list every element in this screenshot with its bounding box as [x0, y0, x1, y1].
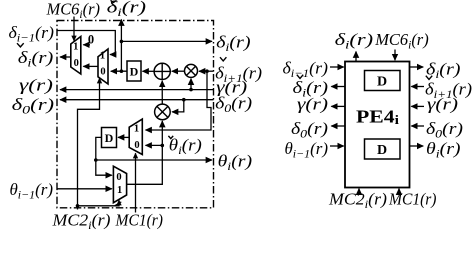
svg-text:1: 1 — [73, 42, 78, 53]
wire delta_i-1 input to mux M2 pin 1 — [57, 31, 115, 55]
wire D2 output to theta_i row — [96, 137, 102, 160]
svg-text:PE4i: PE4i — [356, 107, 399, 128]
flip-flop D (bottom) — [365, 139, 401, 159]
wire adder A1 output to D1 — [143, 70, 155, 72]
svg-text:δ0(r): δ0(r) — [426, 119, 463, 141]
wire gamma up into X1 — [190, 79, 192, 90]
wire constant 0 into M1 pin 1 — [83, 44, 90, 46]
node delta-check_i+1 tap — [205, 69, 209, 73]
wire right row2 input arrow — [411, 86, 424, 88]
mux M1 — [71, 37, 81, 75]
dash-dot PE boundary box — [57, 21, 214, 208]
svg-text:0: 0 — [100, 67, 105, 78]
wire row1 input arrow — [330, 66, 344, 68]
svg-text:θi(r): θi(r) — [426, 139, 461, 161]
wire MC2 select net (mux M2 select to mux M4 select) — [78, 78, 100, 206]
svg-text:γ(r): γ(r) — [297, 95, 328, 114]
svg-text:0: 0 — [74, 58, 79, 69]
multiplier X1 — [185, 64, 198, 77]
svg-text:δ0(r): δ0(r) — [291, 119, 328, 141]
label caron remnant above top delta — [111, 0, 117, 2]
wire right row3 input arrow — [411, 105, 424, 107]
wire row2 output arrow — [331, 86, 345, 88]
node delta_i branch — [120, 40, 124, 44]
wire branch down to mux M4 pin 0 — [96, 160, 112, 175]
svg-text:θi(r): θi(r) — [218, 152, 253, 174]
wire right row1 output arrow — [410, 66, 424, 68]
svg-text:0: 0 — [116, 172, 121, 183]
mux M4 select hatch — [115, 202, 122, 206]
wire MC2 bottom input arrow — [358, 189, 360, 193]
node MC2 junction — [76, 204, 80, 208]
svg-text:δi(r): δi(r) — [107, 0, 147, 19]
svg-text:MC1(r): MC1(r) — [388, 190, 437, 209]
wire row3 output arrow — [331, 105, 345, 107]
wire delta_i(r) output to right edge — [121, 40, 212, 42]
wire row4 output arrow — [331, 125, 345, 127]
node D1 output tap — [120, 69, 124, 73]
svg-text:δi(r): δi(r) — [426, 60, 461, 82]
svg-text:D: D — [105, 131, 114, 145]
wire mux M3 output to D2 — [118, 136, 129, 138]
svg-text:MC1(r): MC1(r) — [115, 210, 164, 229]
svg-text:0: 0 — [134, 140, 139, 151]
wire delta_0(r) bus across — [60, 99, 214, 101]
wire delta-check_i+1 down to mux M3 pin 1 — [146, 71, 212, 130]
svg-text:1: 1 — [117, 185, 122, 196]
mux M2 — [98, 49, 108, 84]
wire MC1 bottom input arrow — [398, 189, 400, 193]
wire theta_i-1 input to mux M4 pin 1 — [57, 188, 112, 190]
mux M3 — [129, 119, 142, 154]
svg-text:D: D — [377, 75, 387, 90]
wire theta-check to mux M3 pin 0 — [146, 144, 163, 146]
wire MC1 select into mux M3 — [135, 153, 137, 212]
mux M4 (mirrored, inputs on left) — [113, 166, 126, 203]
svg-text:D: D — [377, 143, 387, 158]
svg-text:MC6i(r): MC6i(r) — [46, 0, 101, 21]
wire mux M1 output delta-check_i to left edge — [60, 56, 71, 58]
node gamma tap — [189, 88, 193, 92]
PE4i block box — [345, 62, 410, 188]
label caron of left row2 — [297, 75, 303, 79]
wire multiplier X1 output to adder A1 — [172, 70, 185, 72]
label caron of right row2 — [426, 76, 432, 80]
wire MC2 to mux M4 select — [78, 200, 120, 206]
svg-text:MC2i(r): MC2i(r) — [51, 210, 110, 232]
wire right row5 output arrow — [410, 145, 424, 147]
wire MC6 select into mux M1 — [73, 17, 75, 41]
node theta_i junction — [94, 158, 98, 162]
svg-text:MC6i(r): MC6i(r) — [374, 30, 429, 52]
flip-flop D (top) — [365, 71, 401, 91]
svg-text:δ0(r): δ0(r) — [12, 95, 55, 117]
svg-text:θi(r): θi(r) — [169, 136, 202, 158]
wire delta_0 into multiplier X2 — [172, 100, 184, 112]
wire theta-check vertical (mux M4 output up to X2) — [127, 121, 163, 184]
node delta_0 tap — [182, 98, 186, 102]
label caron of theta-check_i(r) — [168, 136, 173, 139]
svg-text:δi(r): δi(r) — [335, 30, 374, 52]
wire theta_i(r) output to right edge — [96, 159, 212, 161]
svg-text:1: 1 — [100, 51, 105, 62]
svg-text:δi(r): δi(r) — [18, 48, 54, 70]
wire right row4 input arrow — [411, 125, 424, 127]
svg-text:MC2i(r): MC2i(r) — [328, 190, 387, 212]
wire X2 output up to adder A1 — [161, 81, 163, 104]
wire delta-check_i+1 input from right edge to X1 — [199, 70, 214, 72]
wire delta_i top output arrow — [355, 52, 357, 62]
wire gamma(r) bus across — [60, 89, 214, 91]
multiplier X2 — [155, 104, 171, 120]
svg-text:δi(r): δi(r) — [216, 33, 251, 55]
label caron of delta-check_i+1(r) — [220, 57, 226, 61]
svg-text:γ(r): γ(r) — [19, 76, 53, 95]
adder A1 — [154, 63, 170, 79]
svg-text:1: 1 — [134, 124, 139, 135]
wire mux M2 output to mux M1 pin 0 — [83, 65, 98, 67]
svg-text:δ0(r): δ0(r) — [215, 93, 252, 115]
wire D1 output to mux M2 pin 0 — [111, 70, 127, 72]
svg-text:D: D — [130, 65, 139, 79]
wire MC2 entry stub — [77, 206, 79, 210]
flip-flop D2 — [102, 128, 117, 148]
wire MC6 top input arrow — [394, 50, 396, 61]
label caron of delta-check_i(r) — [17, 43, 24, 47]
wire row5 input arrow — [330, 145, 344, 147]
node theta-check tap to M3 pin 0 — [161, 144, 165, 148]
flip-flop D1 — [127, 61, 141, 81]
svg-text:γ(r): γ(r) — [427, 95, 458, 114]
wire delta_i vertical riser — [120, 20, 122, 72]
